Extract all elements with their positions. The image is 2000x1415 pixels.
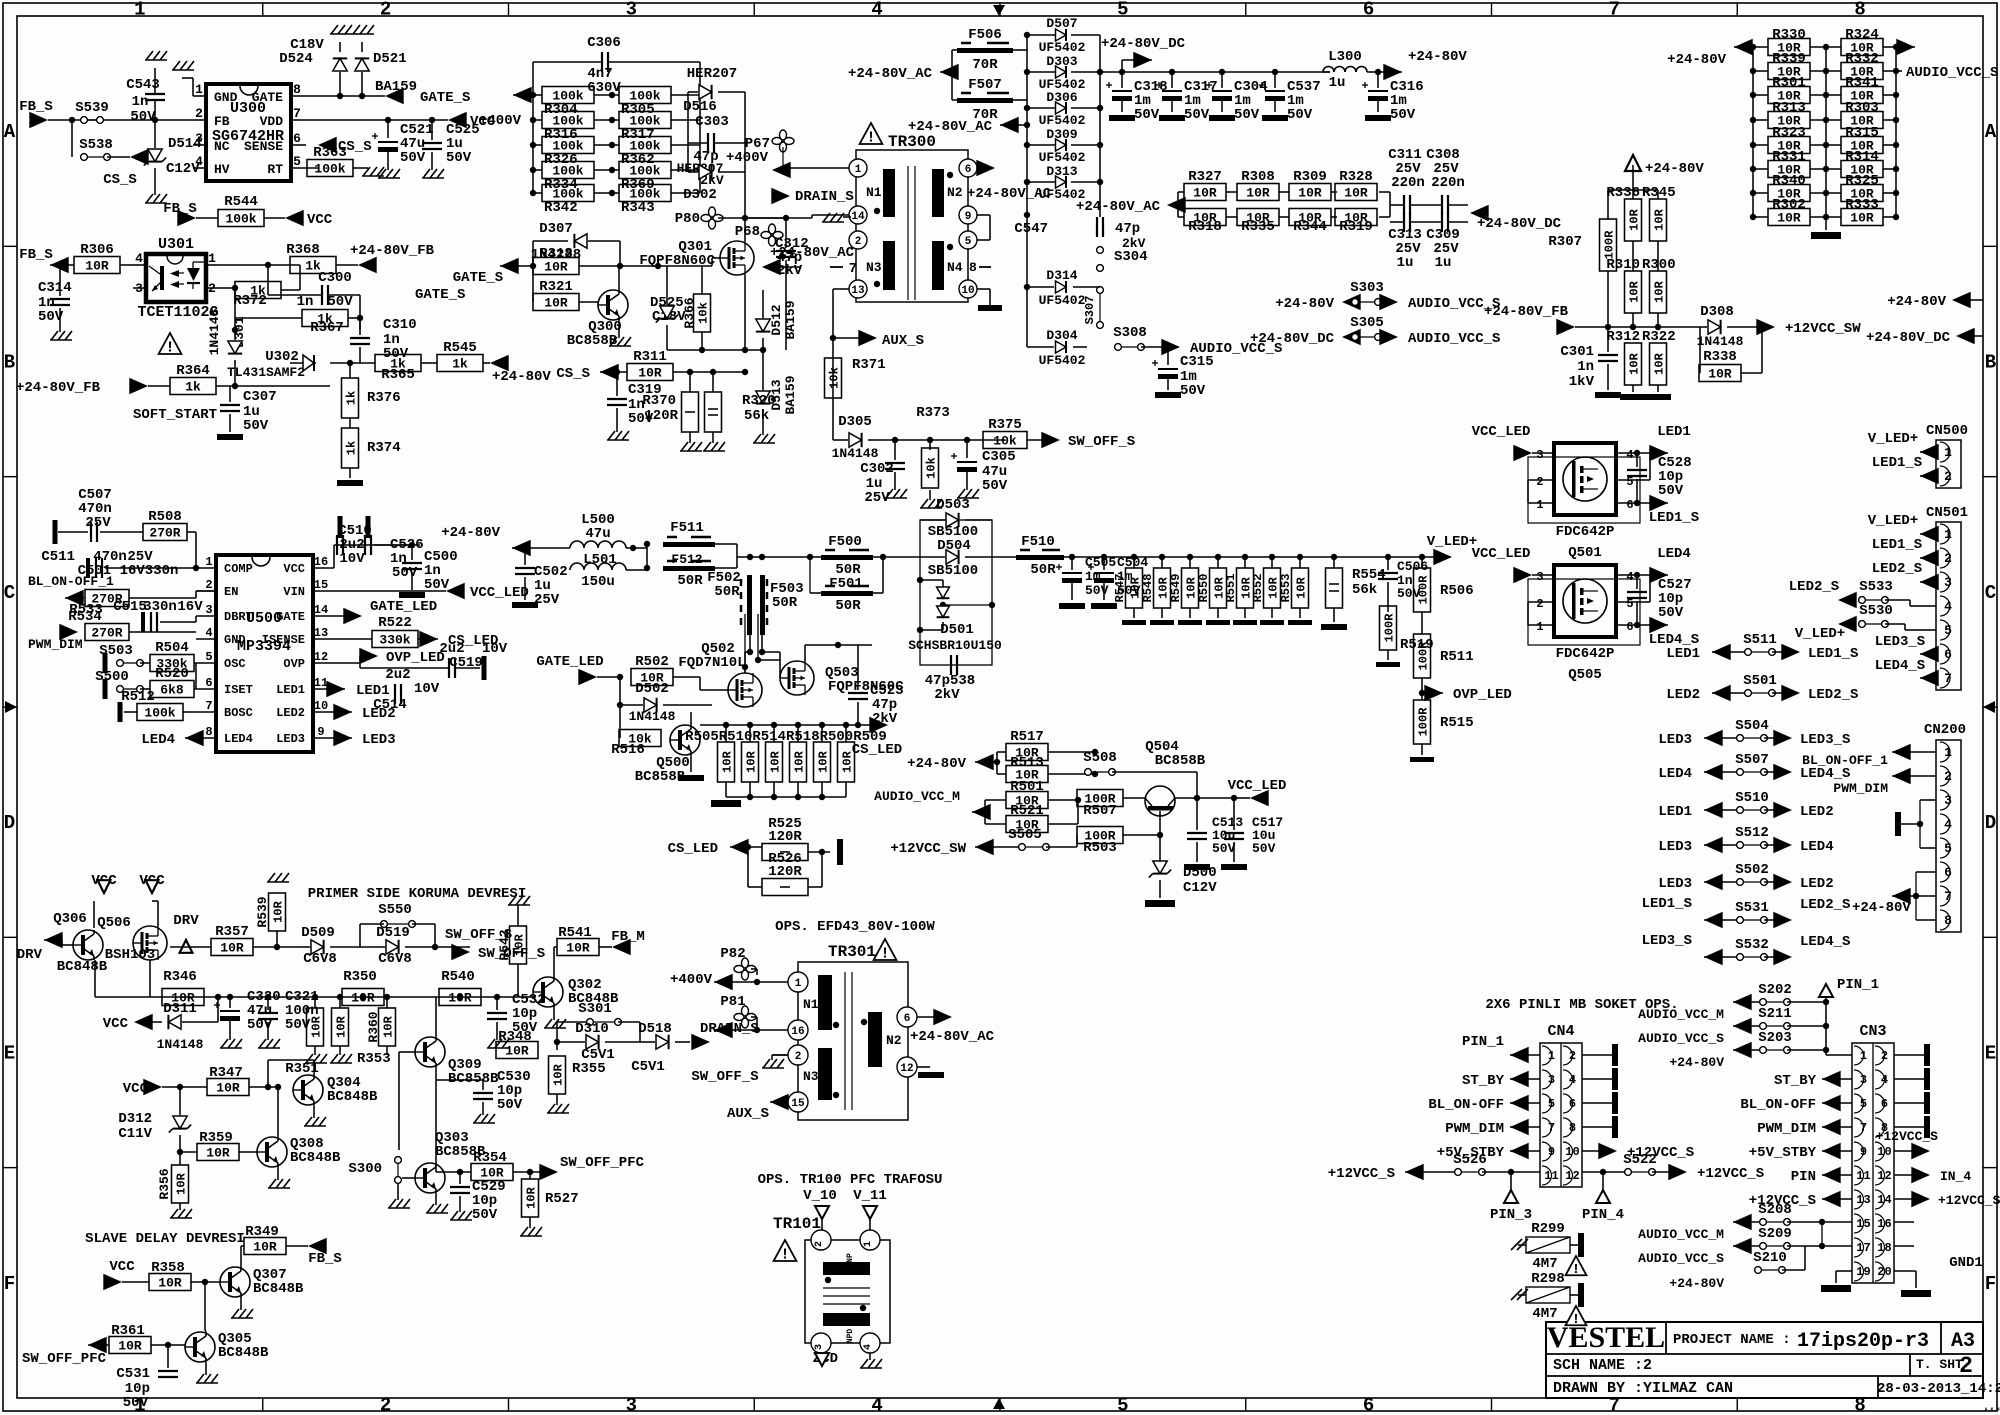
svg-text:330n: 330n bbox=[143, 599, 177, 615]
svg-text:VCC_LED: VCC_LED bbox=[1228, 778, 1287, 794]
svg-text:DRAIN_S: DRAIN_S bbox=[795, 189, 854, 205]
svg-text:2: 2 bbox=[205, 578, 212, 592]
svg-text:CN200: CN200 bbox=[1924, 722, 1966, 738]
svg-text:LED4_S: LED4_S bbox=[1800, 934, 1850, 950]
svg-text:UF5402: UF5402 bbox=[1039, 353, 1086, 368]
svg-text:C5V1: C5V1 bbox=[631, 1059, 665, 1075]
svg-text:N1: N1 bbox=[803, 997, 819, 1012]
svg-text:2: 2 bbox=[380, 0, 391, 21]
svg-text:OVP_LED: OVP_LED bbox=[1453, 687, 1512, 703]
svg-text:50V: 50V bbox=[1287, 107, 1313, 123]
svg-text:S210: S210 bbox=[1753, 1250, 1787, 1266]
svg-text:GATE_S: GATE_S bbox=[415, 287, 465, 303]
svg-text:L300: L300 bbox=[1328, 49, 1362, 65]
svg-text:D502: D502 bbox=[635, 681, 669, 697]
svg-text:5: 5 bbox=[1117, 1395, 1128, 1415]
svg-text:1N4148: 1N4148 bbox=[832, 446, 879, 461]
svg-text:R548: R548 bbox=[1141, 574, 1155, 603]
svg-text:D: D bbox=[1985, 812, 1996, 834]
svg-text:TL431SAMF2: TL431SAMF2 bbox=[227, 365, 305, 380]
svg-text:9: 9 bbox=[317, 725, 324, 739]
svg-text:4M7: 4M7 bbox=[1532, 1306, 1557, 1322]
svg-text:R544: R544 bbox=[224, 194, 258, 210]
svg-text:6: 6 bbox=[205, 676, 212, 690]
svg-text:LED3_S: LED3_S bbox=[1642, 933, 1692, 949]
svg-text:R367: R367 bbox=[310, 320, 344, 336]
svg-text:LED2_S: LED2_S bbox=[1789, 579, 1839, 595]
svg-text:R347: R347 bbox=[209, 1065, 243, 1081]
svg-text:LED3: LED3 bbox=[362, 732, 396, 748]
svg-text:P68: P68 bbox=[735, 224, 760, 240]
svg-text:4: 4 bbox=[1626, 448, 1633, 462]
svg-text:GND: GND bbox=[214, 90, 238, 105]
svg-text:F510: F510 bbox=[1021, 534, 1055, 550]
svg-text:4M7: 4M7 bbox=[1532, 1256, 1557, 1272]
svg-text:R353: R353 bbox=[357, 1051, 391, 1067]
svg-text:10k: 10k bbox=[924, 457, 938, 479]
svg-text:+12VCC_S: +12VCC_S bbox=[1938, 1193, 2000, 1208]
svg-text:1u: 1u bbox=[1329, 75, 1346, 91]
svg-text:1k: 1k bbox=[344, 441, 358, 455]
svg-text:R299: R299 bbox=[1531, 1221, 1565, 1237]
svg-text:10R: 10R bbox=[253, 1240, 277, 1255]
svg-text:ST_BY: ST_BY bbox=[1462, 1073, 1505, 1089]
svg-text:4: 4 bbox=[205, 626, 212, 640]
svg-text:OPS. EFD43_80V-100W: OPS. EFD43_80V-100W bbox=[775, 919, 935, 935]
svg-text:AUDIO_VCC_S: AUDIO_VCC_S bbox=[1638, 1031, 1724, 1046]
svg-text:R357: R357 bbox=[215, 924, 249, 940]
svg-text:10R: 10R bbox=[1246, 211, 1270, 226]
svg-text:14: 14 bbox=[851, 211, 865, 223]
svg-text:50R: 50R bbox=[677, 573, 703, 589]
svg-text:BC858B: BC858B bbox=[1155, 753, 1206, 769]
svg-text:+400V: +400V bbox=[726, 150, 769, 166]
svg-text:+5V_STBY: +5V_STBY bbox=[1749, 1145, 1817, 1161]
svg-text:FDC642P: FDC642P bbox=[1556, 524, 1615, 540]
svg-text:C547: C547 bbox=[1014, 221, 1048, 237]
svg-text:S511: S511 bbox=[1743, 632, 1777, 648]
svg-text:+12VCC_S: +12VCC_S bbox=[1328, 1166, 1395, 1182]
svg-text:TR301: TR301 bbox=[828, 943, 876, 961]
svg-text:10R: 10R bbox=[638, 366, 662, 381]
svg-text:!: ! bbox=[780, 1247, 789, 1264]
svg-text:SOFT_START: SOFT_START bbox=[133, 407, 217, 423]
svg-text:2: 2 bbox=[1959, 1353, 1973, 1379]
svg-text:LED4: LED4 bbox=[141, 732, 175, 748]
svg-text:28-03-2013_14:24: 28-03-2013_14:24 bbox=[1877, 1381, 2000, 1397]
svg-text:+24-80V: +24-80V bbox=[1887, 294, 1946, 310]
svg-text:R517: R517 bbox=[1010, 729, 1044, 745]
svg-text:50R: 50R bbox=[714, 584, 740, 600]
svg-text:R349: R349 bbox=[245, 1224, 279, 1240]
svg-text:R511: R511 bbox=[1440, 649, 1474, 665]
svg-text:50V: 50V bbox=[472, 1207, 498, 1223]
svg-text:630V: 630V bbox=[587, 80, 621, 96]
svg-text:R338: R338 bbox=[1703, 349, 1737, 365]
svg-text:PIN_3: PIN_3 bbox=[1490, 1207, 1532, 1223]
svg-text:VCC_LED: VCC_LED bbox=[1472, 546, 1531, 562]
svg-text:VCC: VCC bbox=[103, 1016, 129, 1032]
svg-text:D512: D512 bbox=[769, 304, 784, 335]
svg-text:2u2: 2u2 bbox=[385, 667, 410, 683]
svg-text:T. SHT: T. SHT bbox=[1916, 1357, 1963, 1372]
svg-text:V_10: V_10 bbox=[803, 1188, 837, 1204]
svg-text:LED2: LED2 bbox=[1800, 876, 1834, 892]
svg-text:VCC_LED: VCC_LED bbox=[1472, 424, 1531, 440]
svg-text:D504: D504 bbox=[937, 538, 971, 554]
svg-text:IN_4: IN_4 bbox=[1940, 1169, 1971, 1184]
svg-text:LED3_S: LED3_S bbox=[1800, 732, 1850, 748]
svg-text:C306: C306 bbox=[587, 35, 621, 51]
svg-text:R370: R370 bbox=[642, 393, 676, 409]
svg-text:12: 12 bbox=[900, 1063, 913, 1075]
svg-text:S500: S500 bbox=[95, 669, 129, 685]
svg-text:LED4: LED4 bbox=[1800, 839, 1834, 855]
svg-text:5: 5 bbox=[293, 154, 301, 169]
svg-text:6: 6 bbox=[1363, 0, 1374, 21]
svg-text:R348: R348 bbox=[498, 1029, 532, 1045]
svg-text:R375: R375 bbox=[988, 417, 1022, 433]
svg-text:120R: 120R bbox=[768, 864, 802, 880]
svg-text:7: 7 bbox=[205, 699, 212, 713]
svg-text:PWM_DIM: PWM_DIM bbox=[1757, 1121, 1816, 1137]
svg-text:6: 6 bbox=[1626, 620, 1633, 634]
svg-text:GATE_S: GATE_S bbox=[453, 270, 503, 286]
svg-text:LED3: LED3 bbox=[1658, 876, 1692, 892]
svg-text:10R: 10R bbox=[512, 933, 526, 955]
svg-text:S211: S211 bbox=[1758, 1006, 1792, 1022]
svg-text:R308: R308 bbox=[1241, 169, 1275, 185]
svg-text:+24-80V: +24-80V bbox=[1852, 900, 1911, 916]
svg-text:10R: 10R bbox=[1627, 280, 1641, 302]
svg-text:BA159: BA159 bbox=[783, 300, 798, 339]
svg-text:VCC_LED: VCC_LED bbox=[470, 585, 529, 601]
svg-text:50R: 50R bbox=[835, 598, 861, 614]
svg-text:D514: D514 bbox=[168, 136, 202, 152]
svg-text:OVP: OVP bbox=[283, 657, 305, 671]
svg-text:FB_M: FB_M bbox=[611, 929, 645, 945]
svg-text:16: 16 bbox=[314, 555, 328, 569]
svg-text:2kV: 2kV bbox=[777, 263, 803, 279]
svg-text:5: 5 bbox=[965, 236, 972, 248]
svg-text:S301: S301 bbox=[578, 1001, 612, 1017]
svg-text:GATE_LED: GATE_LED bbox=[370, 599, 437, 615]
svg-text:N2: N2 bbox=[947, 185, 963, 200]
svg-text:R507: R507 bbox=[1083, 803, 1117, 819]
svg-text:10R: 10R bbox=[381, 1015, 395, 1037]
svg-text:SLAVE DELAY DEVRESI: SLAVE DELAY DEVRESI bbox=[85, 1231, 245, 1247]
svg-text:6: 6 bbox=[293, 131, 301, 146]
svg-text:8: 8 bbox=[969, 260, 977, 275]
svg-text:50V: 50V bbox=[1390, 107, 1416, 123]
svg-text:C303: C303 bbox=[695, 114, 729, 130]
svg-text:10R: 10R bbox=[216, 1081, 240, 1096]
svg-text:50V: 50V bbox=[1234, 107, 1260, 123]
svg-text:120R: 120R bbox=[644, 408, 678, 424]
svg-text:+12VCC_SW: +12VCC_SW bbox=[1785, 321, 1861, 337]
svg-text:150u: 150u bbox=[581, 574, 615, 590]
svg-text:N3: N3 bbox=[803, 1069, 819, 1084]
svg-text:2: 2 bbox=[380, 1395, 391, 1415]
svg-text:NP: NP bbox=[846, 1253, 855, 1263]
svg-text:C314: C314 bbox=[38, 280, 72, 296]
svg-text:S512: S512 bbox=[1735, 825, 1769, 841]
svg-text:BC848B: BC848B bbox=[253, 1281, 304, 1297]
svg-text:AUDIO_VCC_M: AUDIO_VCC_M bbox=[1638, 1227, 1724, 1242]
svg-text:D519: D519 bbox=[376, 925, 410, 941]
svg-text:D310: D310 bbox=[575, 1021, 609, 1037]
svg-text:16: 16 bbox=[791, 1026, 804, 1038]
svg-text:LED2: LED2 bbox=[1800, 804, 1834, 820]
svg-text:10k: 10k bbox=[827, 367, 841, 389]
svg-text:V_LED+: V_LED+ bbox=[1795, 626, 1845, 642]
svg-text:CS_S: CS_S bbox=[556, 366, 590, 382]
svg-text:S510: S510 bbox=[1735, 790, 1769, 806]
svg-text:R354: R354 bbox=[473, 1150, 507, 1166]
svg-text:50V: 50V bbox=[130, 109, 156, 125]
svg-text:100k: 100k bbox=[144, 706, 175, 721]
svg-text:BL_ON-OFF_1: BL_ON-OFF_1 bbox=[1802, 753, 1888, 768]
svg-text:S530: S530 bbox=[1859, 603, 1893, 619]
svg-text:VCC: VCC bbox=[109, 1259, 135, 1275]
svg-text:9: 9 bbox=[965, 211, 972, 223]
svg-text:1: 1 bbox=[195, 82, 203, 97]
svg-text:C511: C511 bbox=[41, 549, 75, 565]
svg-text:UF5402: UF5402 bbox=[1039, 40, 1086, 55]
svg-text:100k: 100k bbox=[314, 162, 345, 177]
svg-text:DRV: DRV bbox=[17, 947, 43, 963]
svg-text:D311: D311 bbox=[163, 1001, 197, 1017]
svg-text:1: 1 bbox=[205, 555, 212, 569]
svg-text:10V: 10V bbox=[414, 681, 440, 697]
svg-text:R320: R320 bbox=[742, 393, 776, 409]
svg-text:FQD7N10L: FQD7N10L bbox=[678, 655, 745, 671]
svg-text:R554: R554 bbox=[1352, 567, 1386, 583]
svg-text:6: 6 bbox=[904, 1013, 911, 1025]
svg-text:LED2_S: LED2_S bbox=[1872, 561, 1922, 577]
svg-text:SW_OFF_S: SW_OFF_S bbox=[1068, 434, 1135, 450]
svg-text:10: 10 bbox=[314, 699, 328, 713]
svg-text:AUDIO_VCC_S: AUDIO_VCC_S bbox=[1638, 1251, 1724, 1266]
svg-text:R358: R358 bbox=[151, 1260, 185, 1276]
svg-text:10R: 10R bbox=[1193, 186, 1217, 201]
svg-text:S505: S505 bbox=[1008, 827, 1042, 843]
svg-text:10R: 10R bbox=[524, 1186, 538, 1208]
svg-text:ISENSE: ISENSE bbox=[262, 633, 305, 647]
svg-text:S507: S507 bbox=[1735, 752, 1769, 768]
svg-text:+24-80V: +24-80V bbox=[907, 756, 966, 772]
svg-text:R513: R513 bbox=[1010, 755, 1044, 771]
svg-text:R504: R504 bbox=[155, 640, 189, 656]
svg-text:10R: 10R bbox=[1294, 576, 1308, 598]
svg-text:A: A bbox=[1985, 121, 1997, 143]
svg-text:F501: F501 bbox=[829, 576, 863, 592]
svg-text:R550: R550 bbox=[1197, 574, 1211, 603]
svg-text:C6V8: C6V8 bbox=[378, 951, 412, 967]
svg-text:V_11: V_11 bbox=[853, 1188, 887, 1204]
svg-text:N4: N4 bbox=[947, 260, 963, 275]
svg-text:EN: EN bbox=[224, 585, 238, 599]
svg-text:50V: 50V bbox=[1085, 583, 1109, 598]
svg-text:+24-80V: +24-80V bbox=[1275, 296, 1334, 312]
svg-text:GATE: GATE bbox=[252, 90, 283, 105]
svg-text:5: 5 bbox=[205, 650, 212, 664]
svg-text:R534: R534 bbox=[68, 609, 102, 625]
svg-text:R355: R355 bbox=[572, 1061, 606, 1077]
svg-text:1n: 1n bbox=[297, 294, 314, 310]
svg-text:1: 1 bbox=[1536, 498, 1543, 512]
svg-text:R539: R539 bbox=[255, 896, 270, 927]
svg-text:B: B bbox=[1985, 351, 1996, 373]
svg-text:50V: 50V bbox=[392, 565, 418, 581]
svg-text:S538: S538 bbox=[79, 137, 113, 153]
svg-text:R520: R520 bbox=[155, 666, 189, 682]
svg-text:56k: 56k bbox=[1352, 582, 1377, 598]
svg-text:S531: S531 bbox=[1735, 900, 1769, 916]
svg-text:+24-80V_DC: +24-80V_DC bbox=[1250, 331, 1335, 347]
svg-text:50V: 50V bbox=[123, 1395, 149, 1411]
svg-text:100k: 100k bbox=[225, 212, 256, 227]
svg-text:HER207: HER207 bbox=[687, 66, 737, 82]
svg-text:COMP: COMP bbox=[224, 562, 253, 576]
svg-text:70R: 70R bbox=[972, 57, 998, 73]
svg-text:7: 7 bbox=[1609, 0, 1620, 21]
svg-text:10k: 10k bbox=[993, 434, 1017, 449]
svg-text:ISET: ISET bbox=[224, 683, 253, 697]
svg-text:LED3_S: LED3_S bbox=[1875, 634, 1925, 650]
svg-text:120R: 120R bbox=[768, 829, 802, 845]
svg-text:2: 2 bbox=[855, 236, 862, 248]
svg-text:!: ! bbox=[1572, 1312, 1580, 1328]
svg-text:C531: C531 bbox=[116, 1366, 150, 1382]
svg-text:15: 15 bbox=[791, 1098, 805, 1110]
svg-text:+24-80V_FB: +24-80V_FB bbox=[1484, 304, 1569, 320]
svg-text:FB_S: FB_S bbox=[308, 1251, 342, 1267]
svg-text:BA159: BA159 bbox=[375, 79, 417, 95]
svg-text:SW_OFF_S: SW_OFF_S bbox=[691, 1069, 758, 1085]
svg-text:10R: 10R bbox=[1627, 352, 1641, 374]
svg-text:BSH103: BSH103 bbox=[105, 947, 155, 963]
svg-text:10R: 10R bbox=[118, 1339, 142, 1354]
svg-text:A3: A3 bbox=[1951, 1330, 1975, 1353]
svg-text:GATE: GATE bbox=[276, 610, 305, 624]
svg-text:1u: 1u bbox=[1397, 255, 1414, 271]
svg-text:LED1: LED1 bbox=[1657, 424, 1691, 440]
svg-text:330k: 330k bbox=[379, 633, 410, 648]
svg-text:FB: FB bbox=[214, 114, 230, 129]
svg-text:2: 2 bbox=[795, 1051, 802, 1063]
svg-text:6: 6 bbox=[965, 164, 972, 176]
svg-text:R360: R360 bbox=[366, 1011, 381, 1042]
svg-text:PWM_DIM: PWM_DIM bbox=[1445, 1121, 1504, 1137]
svg-text:VDD: VDD bbox=[260, 114, 284, 129]
svg-text:10R: 10R bbox=[334, 1015, 348, 1037]
svg-text:BC848B: BC848B bbox=[327, 1089, 378, 1105]
svg-text:C315: C315 bbox=[1180, 354, 1214, 370]
svg-text:SW_OFF_PFC: SW_OFF_PFC bbox=[560, 1155, 645, 1171]
svg-text:NC: NC bbox=[214, 139, 230, 154]
svg-text:F: F bbox=[4, 1273, 15, 1295]
svg-text:LED2_S: LED2_S bbox=[1800, 897, 1850, 913]
svg-text:VCC: VCC bbox=[307, 212, 333, 228]
svg-text:100R: 100R bbox=[1382, 613, 1396, 643]
svg-text:+24-80V_DC: +24-80V_DC bbox=[1101, 36, 1186, 52]
svg-text:3: 3 bbox=[626, 1395, 637, 1415]
svg-text:100R: 100R bbox=[1416, 707, 1430, 737]
svg-text:1k: 1k bbox=[452, 357, 468, 372]
svg-text:C305: C305 bbox=[982, 449, 1016, 465]
svg-text:10R: 10R bbox=[448, 991, 472, 1006]
svg-text:10R: 10R bbox=[1652, 208, 1666, 230]
svg-text:S532: S532 bbox=[1735, 937, 1769, 953]
svg-text:LED4: LED4 bbox=[224, 732, 253, 746]
svg-text:BL_ON-OFF: BL_ON-OFF bbox=[1428, 1097, 1504, 1113]
svg-text:D303: D303 bbox=[1046, 54, 1077, 69]
svg-text:2: 2 bbox=[1536, 597, 1543, 611]
svg-text:R521: R521 bbox=[1010, 803, 1044, 819]
svg-text:BC848B: BC848B bbox=[57, 959, 108, 975]
svg-text:E: E bbox=[1985, 1042, 1996, 1064]
svg-text:1N4148: 1N4148 bbox=[1697, 334, 1744, 349]
svg-text:C12V: C12V bbox=[166, 161, 200, 177]
svg-text:SCH NAME :2: SCH NAME :2 bbox=[1553, 1357, 1652, 1374]
svg-text:+24-80V: +24-80V bbox=[1669, 1055, 1724, 1070]
svg-text:14: 14 bbox=[314, 603, 328, 617]
svg-text:1n: 1n bbox=[132, 94, 149, 110]
svg-text:+24-80V: +24-80V bbox=[1645, 161, 1704, 177]
svg-text:D308: D308 bbox=[1700, 304, 1734, 320]
svg-text:R346: R346 bbox=[163, 969, 197, 985]
svg-text:UF5402: UF5402 bbox=[1039, 113, 1086, 128]
svg-text:SB5100: SB5100 bbox=[928, 563, 978, 579]
svg-text:D: D bbox=[4, 812, 15, 834]
svg-text:LED3: LED3 bbox=[276, 732, 305, 746]
svg-text:16V: 16V bbox=[177, 599, 203, 615]
svg-text:F512: F512 bbox=[671, 552, 702, 567]
svg-text:OSC: OSC bbox=[224, 657, 246, 671]
svg-text:GND: GND bbox=[224, 633, 246, 647]
svg-text:S550: S550 bbox=[378, 902, 412, 918]
svg-text:LED2: LED2 bbox=[362, 706, 396, 722]
svg-text:R503: R503 bbox=[1083, 840, 1117, 856]
svg-text:1: 1 bbox=[208, 251, 216, 266]
svg-text:FQPF8N60C: FQPF8N60C bbox=[639, 253, 715, 269]
svg-text:50V: 50V bbox=[1180, 383, 1206, 399]
svg-text:10: 10 bbox=[961, 285, 974, 297]
svg-text:50V: 50V bbox=[1184, 107, 1210, 123]
svg-text:BC848B: BC848B bbox=[218, 1345, 269, 1361]
svg-text:R512: R512 bbox=[121, 689, 155, 705]
svg-text:D509: D509 bbox=[301, 925, 335, 941]
svg-text:50V: 50V bbox=[1212, 841, 1236, 856]
svg-text:A: A bbox=[4, 121, 16, 143]
svg-text:13: 13 bbox=[851, 285, 865, 297]
svg-text:DRAWN BY :YILMAZ CAN: DRAWN BY :YILMAZ CAN bbox=[1553, 1380, 1733, 1397]
svg-text:R307: R307 bbox=[1548, 234, 1582, 250]
svg-text:15: 15 bbox=[314, 578, 328, 592]
svg-text:Q505: Q505 bbox=[1568, 667, 1602, 683]
svg-text:R343: R343 bbox=[621, 200, 655, 216]
svg-text:10R: 10R bbox=[1652, 352, 1666, 374]
svg-text:10R: 10R bbox=[85, 259, 109, 274]
svg-text:10R: 10R bbox=[1193, 211, 1217, 226]
svg-text:6: 6 bbox=[1626, 498, 1633, 512]
svg-text:D521: D521 bbox=[373, 51, 407, 67]
svg-text:10R: 10R bbox=[1708, 367, 1732, 382]
svg-text:10R: 10R bbox=[720, 750, 734, 772]
svg-text:D305: D305 bbox=[838, 414, 872, 430]
svg-text:S502: S502 bbox=[1735, 862, 1769, 878]
